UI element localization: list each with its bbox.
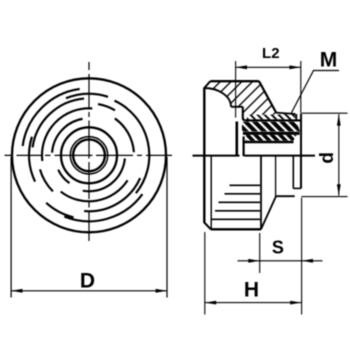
collar top edge [276, 113, 295, 114]
insert end face line [236, 122, 239, 157]
L2 extension line right [300, 61, 302, 113]
head front face line [203, 88, 205, 224]
thread bold line under T2 [243, 132, 300, 135]
svg-text:H: H [244, 278, 259, 301]
head right face edge [260, 156, 262, 230]
front view horizontal centerline [5, 154, 173, 156]
cone-collar junction edge [275, 156, 277, 196]
knurl arcs ring level 4 [52, 119, 82, 153]
H dimension line [205, 302, 302, 304]
top-left chamfer [204, 81, 210, 88]
thread major circle [70, 137, 107, 174]
outer circle (head OD, D) [12, 78, 166, 232]
recess floor wall [243, 107, 246, 121]
svg-text:M: M [320, 49, 338, 72]
head-collar cone slope (top) [259, 81, 276, 112]
S extension line left [259, 233, 261, 273]
side view centerline [193, 155, 316, 157]
collar groove floor (exterior) [293, 187, 301, 189]
thread teeth band T3 [246, 135, 297, 141]
thread teeth strip T1 [247, 114, 295, 119]
H extension line left [204, 232, 206, 315]
D extension line left [10, 157, 12, 298]
recess shelf [231, 106, 243, 108]
thread bold line under T3 (bore wall) [245, 141, 294, 144]
svg-text:D: D [80, 269, 95, 292]
cone silhouette (bottom) [261, 196, 276, 229]
head bottom edge [211, 228, 261, 230]
collar edge groove wall (section) [295, 114, 297, 121]
svg-text:L2: L2 [262, 45, 280, 62]
S dimension line [238, 260, 323, 262]
d extension line lower [301, 196, 347, 198]
d dimension line [338, 114, 340, 195]
S/H shared right extension line [301, 198, 303, 315]
recess rim circle [61, 127, 117, 183]
head top edge [210, 80, 259, 82]
knurl line 2 [225, 193, 261, 195]
knurl arcs ring level 1 [23, 89, 80, 146]
collar groove inner wall edge [292, 156, 294, 189]
svg-text:d: d [317, 152, 338, 164]
thread top line [245, 119, 301, 121]
knurl arcs ring level 2 [33, 99, 84, 148]
collar right face [300, 114, 302, 189]
svg-text:S: S [272, 238, 284, 258]
collar bottom edge [276, 195, 295, 197]
thread teeth band T2 [242, 122, 300, 132]
bore bottom line [243, 137, 245, 157]
thread minor circle (bore) [73, 139, 105, 171]
D extension line right [166, 157, 168, 298]
bottom-left chamfer [204, 223, 211, 230]
knurl line 3 [219, 201, 261, 203]
left chamfer edge line [210, 156, 212, 229]
d extension line upper [302, 112, 348, 114]
recess concave arc [204, 88, 231, 107]
knurl line 4 [215, 210, 260, 212]
front view vertical centerline [88, 62, 90, 241]
L2 extension line left [235, 61, 237, 118]
L2 dimension line [236, 66, 301, 68]
D dimension line [11, 290, 167, 292]
M leader line [291, 71, 339, 114]
knurl line 1 [230, 184, 261, 186]
knurl line 5 [212, 218, 261, 220]
section hatch (head + collar, upper half) [204, 81, 296, 120]
knurl arcs ring level 3 [42, 108, 92, 161]
